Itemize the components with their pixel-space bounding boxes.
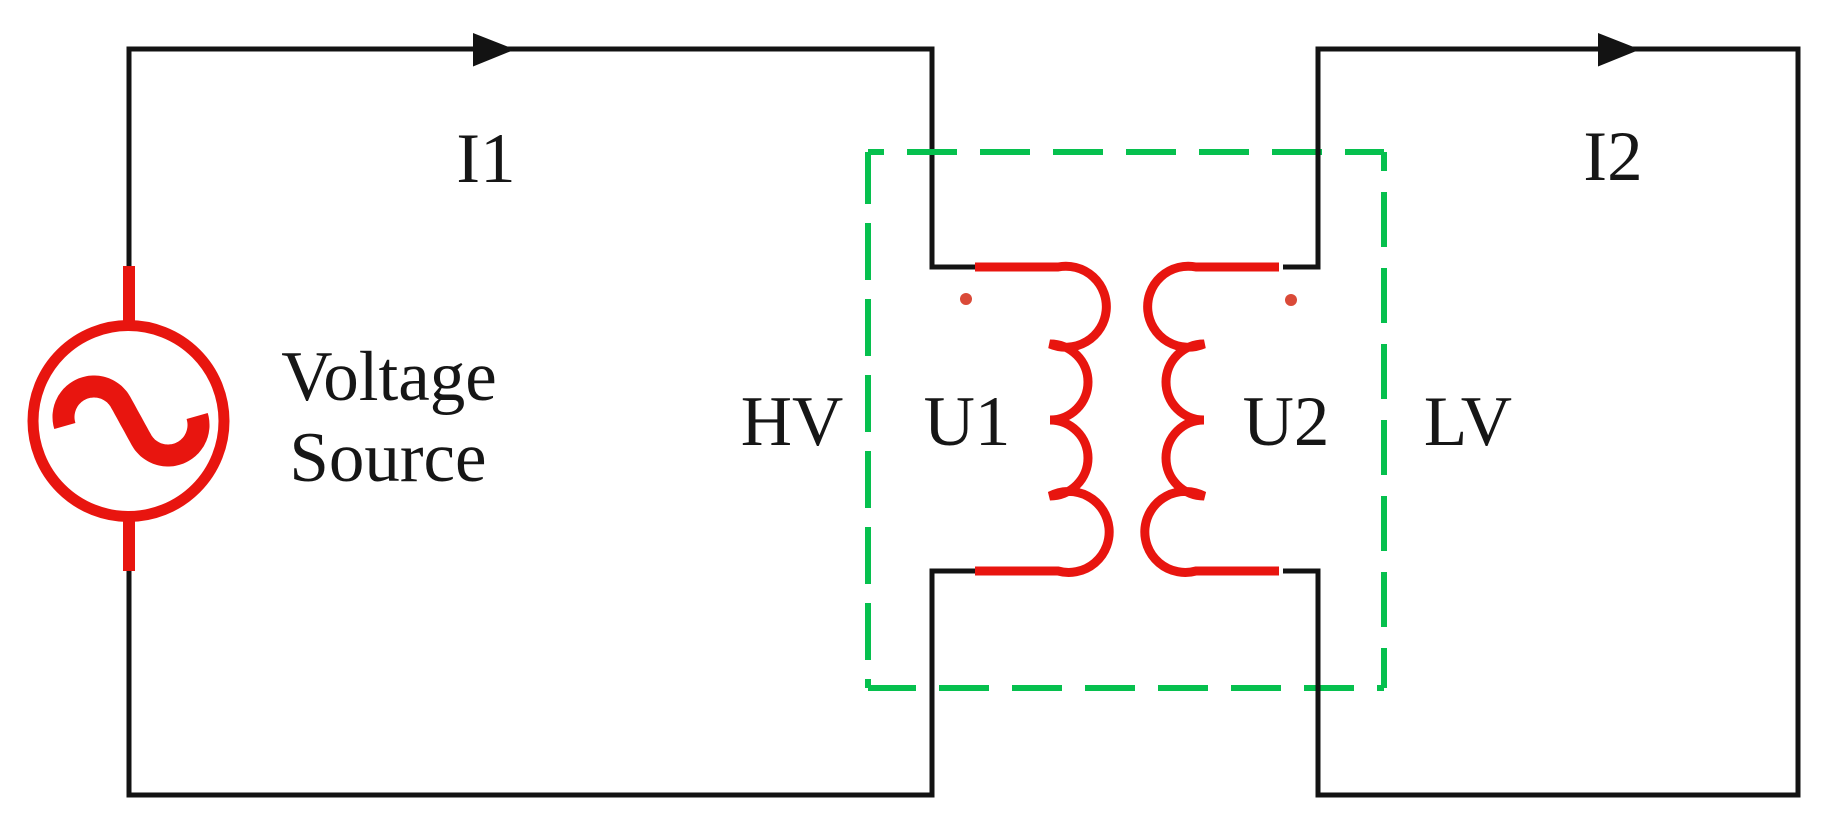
arrow I2 current direction [1598,33,1640,67]
voltage source V1: top red lead [123,266,135,328]
svg-text:Voltage: Voltage [281,338,497,416]
svg-text:Source: Source [289,419,486,497]
polarity dot secondary [1285,294,1297,306]
voltage source V1: sine wave symbol [53,376,210,467]
voltage source V1: bottom red lead [123,513,135,571]
arrow I1 current direction [473,33,515,67]
svg-text:U2: U2 [1243,383,1330,461]
wire primary loop top: source to transformer HV [129,49,980,267]
polarity dot primary [960,293,972,305]
transformer T1 boundary (green dashed box) [868,152,1384,688]
wire secondary loop top: transformer LV to load loop [1283,49,1798,795]
svg-text:LV: LV [1424,383,1512,461]
svg-text:HV: HV [741,383,844,461]
transformer T1 primary winding U1 [975,266,1109,572]
svg-text:U1: U1 [924,383,1011,461]
transformer T1 secondary winding U2 [1145,266,1279,572]
svg-text:I1: I1 [456,120,515,198]
voltage source V1: circle body [33,326,224,517]
wire primary loop bottom [129,570,980,795]
svg-text:I2: I2 [1583,118,1642,196]
